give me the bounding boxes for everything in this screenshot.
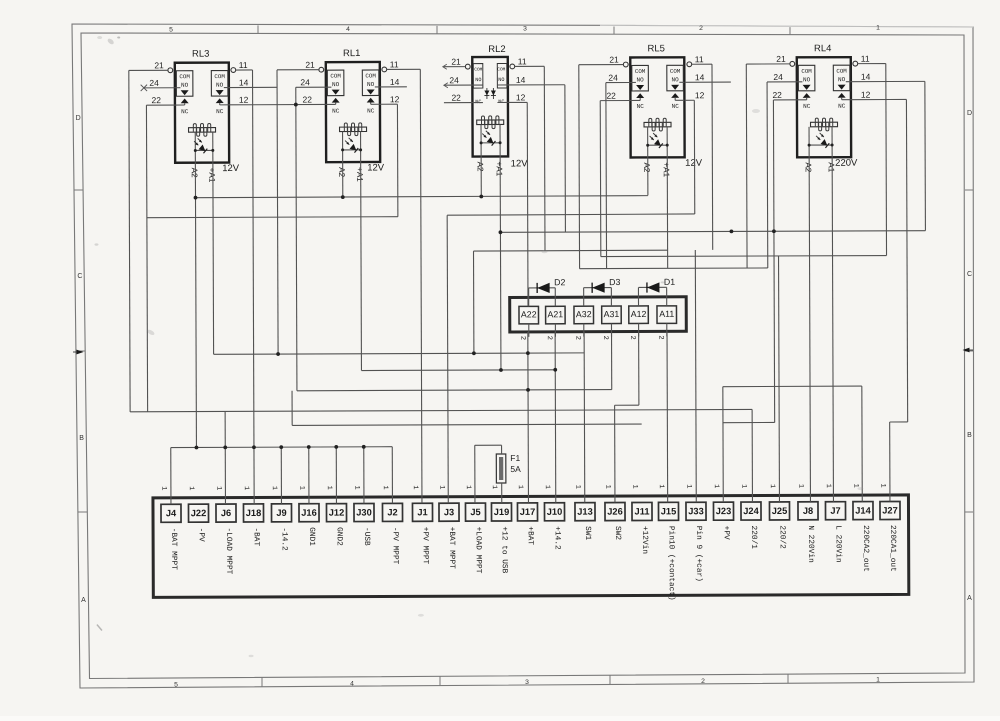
svg-text:D1: D1	[664, 277, 675, 287]
svg-text:-LOAD MPPT: -LOAD MPPT	[224, 528, 232, 575]
svg-text:B: B	[79, 435, 84, 442]
svg-text:NO: NO	[181, 82, 189, 89]
svg-text:11: 11	[518, 56, 527, 66]
svg-text:J9: J9	[276, 508, 286, 518]
svg-text:J2: J2	[387, 507, 397, 517]
svg-text:220V: 220V	[835, 158, 858, 169]
svg-text:D: D	[76, 115, 81, 122]
svg-text:GND1: GND1	[307, 527, 315, 546]
svg-text:J33: J33	[688, 506, 704, 516]
svg-text:1: 1	[214, 486, 222, 490]
svg-text:1: 1	[516, 485, 524, 489]
svg-text:J22: J22	[191, 508, 207, 518]
svg-text:14: 14	[516, 75, 526, 85]
svg-text:J26: J26	[607, 507, 623, 517]
svg-text:1: 1	[657, 484, 665, 488]
svg-text:+BAT MPPT: +BAT MPPT	[447, 527, 455, 569]
svg-text:A11: A11	[659, 309, 674, 319]
svg-text:B: B	[967, 432, 972, 439]
svg-text:-PV: -PV	[197, 528, 205, 542]
svg-text:J8: J8	[803, 506, 813, 516]
svg-text:COM: COM	[670, 68, 681, 75]
svg-text:21: 21	[305, 60, 315, 70]
svg-text:NC: NC	[181, 108, 189, 115]
svg-text:+A1: +A1	[355, 167, 364, 182]
svg-text:COM: COM	[214, 73, 225, 80]
svg-text:J6: J6	[221, 508, 231, 518]
svg-text:NC: NC	[838, 103, 846, 110]
svg-text:NC: NC	[216, 108, 224, 115]
svg-text:J19: J19	[494, 507, 510, 517]
svg-text:22: 22	[606, 91, 616, 101]
svg-text:COM: COM	[474, 67, 482, 73]
svg-text:2: 2	[701, 678, 705, 685]
svg-text:1: 1	[490, 485, 498, 489]
svg-text:A2: A2	[642, 162, 651, 172]
svg-text:2: 2	[601, 336, 609, 340]
svg-text:NC: NC	[803, 103, 811, 110]
svg-text:1: 1	[464, 485, 472, 489]
svg-text:NO: NO	[475, 77, 481, 83]
svg-text:11: 11	[390, 59, 399, 69]
svg-text:Pin10 (+contact): Pin10 (+contact)	[667, 526, 675, 601]
svg-text:C: C	[967, 271, 972, 278]
svg-text:NO: NO	[838, 76, 846, 83]
svg-text:-BAT MPPT: -BAT MPPT	[169, 528, 177, 570]
svg-text:+PV MPPT: +PV MPPT	[421, 527, 429, 565]
svg-text:24: 24	[449, 75, 459, 85]
svg-text:RL3: RL3	[192, 49, 209, 60]
svg-text:A: A	[81, 597, 86, 604]
svg-text:A2: A2	[476, 162, 485, 172]
svg-text:12V: 12V	[367, 162, 385, 173]
svg-text:+14.2: +14.2	[553, 526, 561, 550]
svg-text:J15: J15	[661, 506, 677, 516]
svg-text:RL1: RL1	[343, 48, 360, 59]
svg-text:1: 1	[325, 486, 333, 490]
svg-text:J5: J5	[470, 507, 480, 517]
svg-text:C: C	[77, 273, 82, 280]
svg-text:NO: NO	[498, 77, 504, 83]
svg-text:220CA1_out: 220CA1_out	[888, 525, 896, 572]
svg-text:A: A	[967, 595, 972, 602]
svg-text:1: 1	[270, 486, 278, 490]
svg-text:J7: J7	[830, 506, 840, 516]
svg-text:1: 1	[381, 485, 389, 489]
svg-text:NO: NO	[671, 76, 679, 83]
svg-text:J23: J23	[716, 506, 732, 516]
svg-text:12: 12	[239, 95, 249, 105]
svg-text:12V: 12V	[685, 158, 703, 169]
svg-text:4: 4	[350, 680, 354, 687]
svg-text:21: 21	[776, 54, 786, 64]
svg-text:1: 1	[573, 485, 581, 489]
svg-text:-PV MPPT: -PV MPPT	[391, 527, 399, 565]
svg-text:COM: COM	[635, 68, 646, 75]
svg-text:A21: A21	[548, 309, 564, 319]
svg-text:220/2: 220/2	[778, 525, 786, 549]
svg-text:21: 21	[451, 57, 461, 67]
svg-text:1: 1	[796, 484, 804, 488]
svg-text:14: 14	[390, 77, 400, 87]
svg-text:1: 1	[630, 484, 638, 488]
svg-text:1: 1	[824, 484, 832, 488]
svg-text:A12: A12	[631, 309, 647, 319]
svg-text:-BAT: -BAT	[252, 527, 260, 546]
svg-text:12: 12	[695, 90, 705, 100]
svg-text:2: 2	[699, 25, 703, 32]
svg-text:24: 24	[608, 73, 618, 83]
svg-text:NO: NO	[803, 76, 811, 83]
svg-text:5: 5	[174, 682, 178, 689]
svg-text:RL4: RL4	[814, 43, 831, 54]
svg-text:1: 1	[159, 486, 167, 490]
svg-text:5: 5	[169, 27, 173, 34]
svg-text:+A1: +A1	[207, 168, 216, 183]
svg-text:+12Vin: +12Vin	[640, 526, 648, 554]
svg-text:J25: J25	[772, 506, 788, 516]
svg-text:24: 24	[149, 78, 159, 88]
svg-text:11: 11	[695, 54, 704, 64]
svg-text:2: 2	[573, 336, 581, 340]
svg-text:3: 3	[525, 679, 529, 686]
svg-text:220/1: 220/1	[749, 526, 757, 550]
svg-text:NO: NO	[332, 81, 340, 88]
svg-text:RL2: RL2	[488, 44, 505, 55]
svg-text:1: 1	[352, 486, 360, 490]
svg-text:5A: 5A	[510, 464, 521, 474]
svg-text:D: D	[967, 110, 972, 117]
svg-text:21: 21	[609, 55, 619, 65]
svg-text:22: 22	[451, 93, 461, 103]
svg-text:1: 1	[712, 484, 720, 488]
svg-text:J10: J10	[547, 507, 563, 517]
svg-text:F1: F1	[510, 453, 520, 463]
svg-text:J12: J12	[329, 508, 345, 518]
svg-text:J3: J3	[444, 507, 454, 517]
svg-text:J18: J18	[246, 508, 262, 518]
svg-text:COM: COM	[497, 66, 505, 72]
svg-text:14: 14	[861, 72, 871, 82]
svg-text:1: 1	[187, 486, 195, 490]
svg-text:J30: J30	[356, 507, 372, 517]
svg-text:NC: NC	[637, 103, 645, 110]
svg-text:J4: J4	[166, 508, 177, 518]
svg-text:+A1: +A1	[495, 161, 504, 176]
svg-text:D2: D2	[554, 277, 565, 287]
svg-text:1: 1	[603, 485, 611, 489]
svg-text:J24: J24	[743, 506, 759, 516]
svg-text:COM: COM	[365, 72, 376, 79]
svg-text:2: 2	[656, 335, 664, 339]
svg-text:1: 1	[297, 486, 305, 490]
svg-text:12: 12	[390, 94, 400, 104]
svg-text:COM: COM	[836, 68, 847, 75]
svg-text:D3: D3	[609, 277, 620, 287]
svg-text:4: 4	[346, 26, 350, 33]
svg-text:NC: NC	[332, 108, 340, 115]
svg-text:2: 2	[518, 336, 526, 340]
svg-text:14: 14	[695, 72, 705, 82]
svg-text:24: 24	[300, 77, 310, 87]
svg-text:2: 2	[545, 336, 553, 340]
svg-text:NC: NC	[672, 103, 680, 110]
svg-text:1: 1	[876, 25, 880, 32]
svg-text:22: 22	[772, 90, 782, 100]
svg-text:24: 24	[773, 72, 783, 82]
svg-text:A2: A2	[337, 167, 346, 177]
svg-text:1: 1	[411, 485, 419, 489]
svg-text:3: 3	[523, 26, 527, 33]
svg-text:+12 to USB: +12 to USB	[500, 526, 508, 573]
svg-text:+A1: +A1	[662, 162, 671, 177]
svg-text:21: 21	[154, 60, 164, 70]
svg-text:A32: A32	[576, 309, 592, 319]
svg-text:COM: COM	[179, 73, 190, 80]
svg-text:-USB: -USB	[362, 527, 370, 546]
svg-text:SW2: SW2	[613, 526, 621, 540]
svg-text:J13: J13	[577, 507, 593, 517]
svg-text:J14: J14	[855, 506, 871, 516]
svg-text:1: 1	[739, 484, 747, 488]
svg-text:NO: NO	[367, 81, 375, 88]
svg-text:COM: COM	[801, 68, 812, 75]
svg-text:J17: J17	[520, 507, 536, 517]
svg-text:+LOAD MPPT: +LOAD MPPT	[474, 527, 482, 574]
svg-text:GND2: GND2	[335, 527, 343, 546]
svg-text:1: 1	[437, 485, 445, 489]
svg-text:N 220Vin: N 220Vin	[806, 525, 814, 562]
svg-text:12: 12	[516, 92, 526, 102]
svg-text:+PV: +PV	[722, 526, 730, 540]
svg-text:J11: J11	[634, 506, 649, 516]
svg-text:L 220Vin: L 220Vin	[834, 525, 842, 562]
svg-text:NO: NO	[216, 82, 224, 89]
svg-text:1: 1	[876, 677, 880, 684]
svg-text:12V: 12V	[511, 158, 529, 169]
svg-text:1: 1	[878, 484, 886, 488]
svg-text:Pin 9 (+car): Pin 9 (+car)	[694, 526, 702, 582]
svg-text:J1: J1	[417, 507, 427, 517]
svg-text:11: 11	[861, 54, 870, 64]
svg-text:14: 14	[239, 77, 249, 87]
svg-text:220CA2_out: 220CA2_out	[861, 525, 869, 572]
svg-text:A2: A2	[190, 168, 199, 178]
svg-text:-14.2: -14.2	[280, 527, 288, 551]
svg-text:1: 1	[768, 484, 776, 488]
svg-text:22: 22	[151, 95, 161, 105]
svg-text:A22: A22	[521, 309, 537, 319]
svg-text:NC: NC	[367, 107, 375, 114]
svg-text:+BAT: +BAT	[526, 526, 534, 545]
svg-text:1: 1	[543, 485, 551, 489]
svg-text:SW1: SW1	[583, 526, 591, 540]
svg-text:J27: J27	[882, 505, 898, 515]
svg-text:1: 1	[851, 484, 859, 488]
svg-text:11: 11	[239, 60, 248, 70]
svg-text:J16: J16	[301, 508, 317, 518]
svg-text:NO: NO	[636, 76, 644, 83]
svg-text:A31: A31	[604, 309, 620, 319]
svg-text:RL5: RL5	[647, 43, 664, 54]
svg-text:COM: COM	[330, 73, 341, 80]
svg-text:1: 1	[684, 484, 692, 488]
svg-text:22: 22	[302, 95, 312, 105]
svg-text:2: 2	[628, 335, 636, 339]
svg-text:12: 12	[861, 90, 871, 100]
svg-text:A2: A2	[804, 162, 813, 172]
svg-text:1: 1	[242, 486, 250, 490]
svg-text:12V: 12V	[222, 163, 240, 174]
